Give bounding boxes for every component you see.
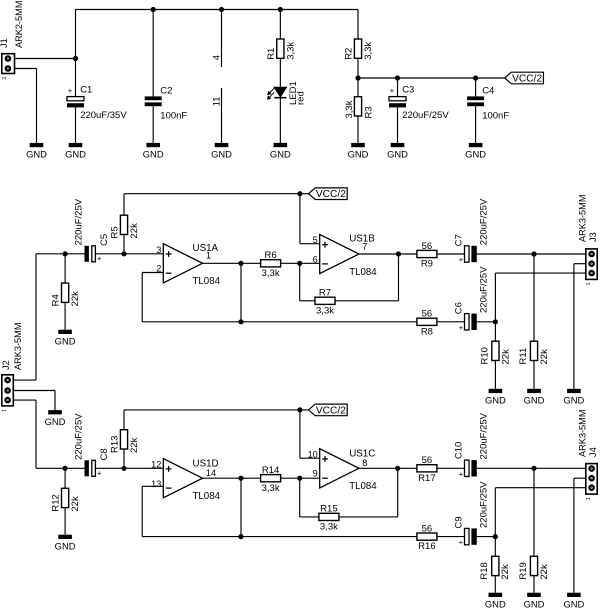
svg-text:R10: R10 bbox=[479, 347, 490, 364]
resistor R11 22k bbox=[518, 341, 550, 364]
svg-text:56: 56 bbox=[422, 455, 433, 466]
wire C8 to US1D bbox=[95, 467, 163, 469]
svg-text:220uF/25V: 220uF/25V bbox=[402, 110, 449, 121]
ground LED1 bbox=[270, 143, 291, 160]
wire R6 to US1B pin6 bbox=[281, 262, 320, 264]
svg-text:3,3k: 3,3k bbox=[320, 522, 338, 533]
ground C3 bbox=[387, 143, 408, 160]
svg-text:R11: R11 bbox=[518, 348, 529, 365]
svg-text:1: 1 bbox=[2, 409, 8, 412]
ground J4 pin2 bbox=[563, 593, 584, 609]
svg-text:56: 56 bbox=[422, 523, 433, 534]
resistor R18 22k bbox=[479, 556, 511, 579]
wire top supply rail bbox=[76, 9, 359, 11]
svg-text:220uF/25V: 220uF/25V bbox=[478, 266, 489, 313]
svg-text:C5: C5 bbox=[99, 234, 110, 246]
op-amp US1C bbox=[308, 449, 378, 493]
ground R3 bbox=[348, 143, 369, 160]
op-amp US1A bbox=[156, 243, 220, 287]
wire J1 pin2 to ground bbox=[15, 69, 37, 143]
wire R9 to C7 bbox=[437, 253, 465, 255]
wire R4 to ground bbox=[64, 302, 66, 329]
svg-text:22k: 22k bbox=[539, 564, 550, 580]
wire US1C output bbox=[359, 467, 417, 469]
svg-text:R14: R14 bbox=[262, 465, 279, 476]
svg-text:R19: R19 bbox=[518, 562, 529, 579]
svg-text:ARK2-5MM: ARK2-5MM bbox=[14, 1, 24, 48]
svg-text:R1: R1 bbox=[266, 48, 277, 60]
wire node VCC/2 horizontal bbox=[358, 77, 505, 79]
ground C4 bbox=[465, 143, 486, 160]
svg-text:GND: GND bbox=[348, 149, 369, 160]
svg-text:220uF/25V: 220uF/25V bbox=[478, 481, 489, 528]
wire US1D output bbox=[203, 477, 261, 479]
svg-text:9: 9 bbox=[313, 469, 318, 479]
ground R10 bbox=[485, 389, 506, 406]
wire to R11 bbox=[533, 254, 535, 341]
connector J4 ARK3-5MM bbox=[577, 410, 598, 501]
capacitor C5 220uF/25V bbox=[73, 198, 110, 263]
junction US1C inverting bbox=[297, 476, 302, 481]
svg-text:R18: R18 bbox=[479, 562, 490, 579]
svg-text:J4: J4 bbox=[588, 447, 598, 457]
junction bias B bbox=[121, 466, 126, 471]
wire C6 to node bbox=[477, 321, 496, 323]
svg-text:22k: 22k bbox=[539, 349, 550, 365]
resistor R12 22k bbox=[51, 488, 82, 511]
wire R19 to ground bbox=[533, 576, 535, 593]
svg-text:4: 4 bbox=[212, 55, 222, 60]
svg-text:R13: R13 bbox=[109, 436, 120, 453]
ground pin11 bbox=[211, 143, 232, 160]
wire node to R10 bbox=[494, 322, 496, 341]
wire VCC/2 to US1C pin10 bbox=[300, 410, 320, 458]
op-amp US1B bbox=[313, 233, 378, 278]
svg-text:220uF/25V: 220uF/25V bbox=[478, 412, 489, 459]
resistor R16 56 bbox=[417, 523, 437, 552]
capacitor C7 220uF/25V bbox=[453, 198, 489, 264]
junction C7 line bbox=[531, 251, 536, 256]
resistor R7 3,3k bbox=[315, 288, 335, 317]
wire R5 to VCC/2 line bbox=[124, 194, 300, 216]
svg-text:US1A: US1A bbox=[193, 243, 219, 254]
junction feedback bottom B bbox=[238, 534, 243, 539]
wire J2 pin1 to input A bbox=[13, 254, 84, 380]
svg-text:100nF: 100nF bbox=[482, 110, 509, 121]
svg-text:1: 1 bbox=[2, 76, 8, 79]
svg-text:56: 56 bbox=[422, 241, 433, 252]
svg-text:R2: R2 bbox=[343, 48, 354, 60]
svg-text:10: 10 bbox=[308, 449, 318, 459]
wire bias A to R5 bbox=[123, 235, 125, 254]
junction US1C out bbox=[395, 466, 400, 471]
junction C3 bbox=[395, 75, 400, 80]
svg-text:ARK3-5MM: ARK3-5MM bbox=[577, 195, 587, 242]
svg-text:GND: GND bbox=[211, 149, 232, 160]
wire R1 to LED1 bbox=[279, 58, 281, 87]
wire US1A feedback bbox=[142, 263, 241, 322]
svg-text:11: 11 bbox=[212, 97, 222, 107]
resistor R13 22k bbox=[109, 430, 139, 453]
resistor R15 3,3k bbox=[319, 504, 339, 533]
svg-text:6: 6 bbox=[313, 254, 318, 264]
svg-text:3,3k: 3,3k bbox=[262, 483, 280, 494]
svg-text:+: + bbox=[459, 538, 464, 547]
wire rail to R1 bbox=[279, 10, 281, 40]
capacitor C4 100nF bbox=[467, 85, 509, 121]
junction C10 line bbox=[531, 466, 536, 471]
svg-text:3,3k: 3,3k bbox=[316, 305, 334, 316]
connector J3 ARK3-5MM bbox=[577, 195, 598, 286]
svg-text:100nF: 100nF bbox=[160, 110, 187, 121]
wire node to R3 bbox=[357, 78, 359, 97]
svg-text:+: + bbox=[68, 86, 73, 95]
svg-text:R12: R12 bbox=[51, 494, 62, 511]
svg-text:J3: J3 bbox=[588, 232, 598, 242]
resistor R4 22k bbox=[51, 283, 82, 306]
svg-text:GND: GND bbox=[55, 541, 76, 552]
svg-text:C8: C8 bbox=[99, 448, 110, 460]
junction C6 out bbox=[493, 319, 498, 324]
svg-text:R16: R16 bbox=[418, 541, 435, 552]
capacitor C10 220uF/25V bbox=[453, 412, 489, 478]
wire junction to flag bbox=[300, 193, 309, 195]
wire node to J3 pin3 bbox=[495, 273, 585, 322]
svg-text:C1: C1 bbox=[80, 85, 92, 96]
wire R3 to ground bbox=[357, 116, 359, 143]
junction US1A out bbox=[238, 261, 243, 266]
wire node to C4 bbox=[475, 78, 477, 96]
svg-text:220uF/35V: 220uF/35V bbox=[80, 110, 127, 121]
svg-text:R5: R5 bbox=[109, 226, 120, 238]
svg-text:220uF/25V: 220uF/25V bbox=[73, 413, 84, 460]
wire node VCC vertical bbox=[75, 10, 77, 97]
junction input B R12 bbox=[63, 466, 68, 471]
wire C4 to ground bbox=[475, 106, 477, 143]
svg-text:22k: 22k bbox=[70, 291, 81, 307]
capacitor C8 220uF/25V bbox=[73, 413, 110, 478]
wire VCC/2 to US1B pin5 bbox=[300, 194, 320, 244]
ground J1 pin2 bbox=[26, 143, 47, 160]
svg-text:220uF/25V: 220uF/25V bbox=[478, 198, 489, 245]
resistor R3 3,3k bbox=[344, 97, 375, 119]
svg-text:R6: R6 bbox=[265, 250, 277, 261]
svg-text:J1: J1 bbox=[0, 38, 9, 48]
ground J3 pin2 bbox=[563, 389, 584, 406]
wire C5 to US1A bbox=[95, 253, 163, 255]
svg-text:GND: GND bbox=[387, 149, 408, 160]
svg-text:22k: 22k bbox=[129, 437, 140, 453]
wire node to C3 bbox=[397, 78, 399, 97]
svg-text:TL084: TL084 bbox=[193, 491, 221, 502]
svg-text:56: 56 bbox=[422, 309, 433, 320]
svg-text:R15: R15 bbox=[320, 504, 337, 515]
wire J2 pin3 to input B bbox=[13, 400, 84, 468]
svg-text:VCC/2: VCC/2 bbox=[316, 189, 346, 200]
wire to R7 bbox=[300, 263, 315, 301]
wire R16 to C9 bbox=[437, 536, 465, 538]
wire R7 to US1B output bbox=[335, 254, 399, 301]
svg-text:J2: J2 bbox=[1, 360, 11, 370]
svg-text:3,3k: 3,3k bbox=[344, 100, 355, 118]
svg-text:C9: C9 bbox=[453, 516, 464, 528]
junction VCC/2 low bbox=[297, 407, 302, 412]
flag VCC/2 middle bbox=[309, 188, 348, 200]
svg-text:12: 12 bbox=[151, 459, 161, 469]
resistor R1 3,3k bbox=[266, 39, 297, 60]
wire R17 to C10 bbox=[437, 467, 465, 469]
svg-text:13: 13 bbox=[151, 479, 161, 489]
wire R13 to VCC/2 line bbox=[124, 410, 300, 430]
resistor R10 22k bbox=[479, 341, 511, 364]
svg-text:R7: R7 bbox=[319, 288, 331, 299]
svg-text:C10: C10 bbox=[453, 442, 464, 459]
wire R12 to ground bbox=[64, 508, 66, 535]
svg-text:1: 1 bbox=[586, 282, 592, 285]
svg-text:GND: GND bbox=[465, 149, 486, 160]
wire US1A output bbox=[203, 262, 261, 264]
resistor R17 56 bbox=[417, 455, 437, 484]
junction rail pin4 bbox=[219, 7, 224, 12]
wire to R19 bbox=[533, 468, 535, 556]
flag VCC/2 top bbox=[505, 72, 544, 84]
junction US1B inverting bbox=[297, 261, 302, 266]
wire bias B to R13 bbox=[123, 449, 125, 468]
svg-text:GND: GND bbox=[270, 149, 291, 160]
svg-text:GND: GND bbox=[45, 416, 66, 427]
svg-text:+: + bbox=[459, 469, 464, 478]
svg-text:C3: C3 bbox=[402, 85, 414, 96]
ground C2 bbox=[143, 143, 164, 160]
resistor R14 3,3k bbox=[261, 465, 281, 494]
wire R14 to US1C pin9 bbox=[281, 477, 320, 479]
svg-text:GND: GND bbox=[65, 149, 86, 160]
connector J2 ARK3-5MM bbox=[1, 323, 23, 412]
op-amp US1D bbox=[151, 459, 220, 503]
wire node to R18 bbox=[494, 537, 496, 557]
wire C3 to ground bbox=[397, 107, 399, 142]
svg-text:R8: R8 bbox=[421, 326, 433, 337]
svg-text:22k: 22k bbox=[500, 564, 511, 580]
wire LED1 to ground bbox=[279, 98, 281, 143]
svg-text:C6: C6 bbox=[453, 302, 464, 314]
svg-text:R17: R17 bbox=[418, 473, 435, 484]
svg-text:TL084: TL084 bbox=[349, 267, 377, 278]
ground R19 bbox=[524, 593, 545, 609]
wire C10 to J4 pin1 bbox=[477, 467, 586, 469]
junction rail R1 bbox=[278, 7, 283, 12]
capacitor C3 220uF/25V bbox=[389, 85, 449, 122]
svg-text:220uF/25V: 220uF/25V bbox=[73, 198, 84, 245]
svg-text:VCC/2: VCC/2 bbox=[512, 73, 542, 84]
wire input A to R4 bbox=[64, 254, 66, 283]
wire C2 to ground bbox=[152, 106, 154, 143]
ground J2 pin2 bbox=[45, 410, 66, 427]
wire J1 pin1 to node VCC bbox=[15, 58, 76, 60]
wire J3 pin2 to ground bbox=[574, 264, 586, 389]
svg-text:+: + bbox=[390, 86, 395, 95]
junction feedback bottom bbox=[238, 319, 243, 324]
junction US1D out bbox=[238, 476, 243, 481]
svg-text:GND: GND bbox=[524, 395, 545, 406]
svg-text:GND: GND bbox=[485, 599, 506, 609]
svg-text:+: + bbox=[97, 469, 102, 478]
svg-text:R3: R3 bbox=[363, 106, 374, 118]
svg-text:3,3k: 3,3k bbox=[285, 42, 296, 60]
svg-text:GND: GND bbox=[143, 149, 164, 160]
junction node VCC bbox=[73, 56, 78, 61]
ground R11 bbox=[524, 389, 545, 406]
svg-text:3: 3 bbox=[156, 245, 161, 255]
svg-text:22k: 22k bbox=[500, 349, 511, 365]
junction bias A bbox=[121, 251, 126, 256]
resistor R2 3,3k bbox=[343, 39, 374, 60]
svg-text:GND: GND bbox=[524, 599, 545, 609]
svg-text:ARK3-5MM: ARK3-5MM bbox=[577, 410, 587, 457]
wire input B to R12 bbox=[64, 468, 66, 488]
wire R18 to ground bbox=[494, 576, 496, 593]
wire J2 pin2 to ground bbox=[13, 391, 55, 411]
LED1 red bbox=[267, 81, 307, 105]
flag VCC/2 lower bbox=[309, 404, 348, 416]
svg-text:ARK3-5MM: ARK3-5MM bbox=[13, 323, 23, 370]
wire R10 to ground bbox=[494, 361, 496, 389]
svg-text:C2: C2 bbox=[160, 85, 172, 96]
svg-text:5: 5 bbox=[313, 235, 318, 245]
capacitor C6 220uF/25V bbox=[453, 266, 489, 332]
svg-text:+: + bbox=[97, 254, 102, 263]
wire node to J4 pin3 bbox=[495, 488, 586, 537]
svg-text:VCC/2: VCC/2 bbox=[316, 405, 346, 416]
pin 11 US1 power stub bbox=[212, 88, 222, 143]
connector J1 ARK2-5MM bbox=[0, 1, 24, 80]
svg-text:C4: C4 bbox=[482, 85, 494, 96]
svg-text:1: 1 bbox=[586, 497, 592, 500]
capacitor C2 100nF bbox=[145, 85, 188, 121]
svg-text:22k: 22k bbox=[70, 496, 81, 512]
svg-text:+: + bbox=[459, 255, 464, 264]
resistor R6 3,3k bbox=[261, 250, 281, 279]
svg-text:GND: GND bbox=[563, 395, 584, 406]
wire R11 to ground bbox=[533, 361, 535, 389]
svg-text:3,3k: 3,3k bbox=[262, 268, 280, 279]
wire J4 pin2 to ground bbox=[574, 478, 586, 593]
svg-text:22k: 22k bbox=[129, 223, 140, 239]
wire C1 to ground bbox=[75, 107, 77, 142]
pin 4 US1 power stub bbox=[212, 10, 222, 68]
resistor R5 22k bbox=[109, 215, 139, 238]
wire R2 to node VCC/2 bbox=[357, 58, 359, 78]
junction rail C2 bbox=[151, 7, 156, 12]
svg-text:GND: GND bbox=[26, 149, 47, 160]
ground R12 bbox=[55, 535, 76, 552]
svg-text:GND: GND bbox=[485, 395, 506, 406]
wire R15 to US1C output bbox=[339, 468, 398, 517]
wire US1B output bbox=[359, 253, 417, 255]
junction US1B out bbox=[396, 251, 401, 256]
svg-text:GND: GND bbox=[563, 599, 584, 609]
wire rail corner to R2 bbox=[357, 10, 359, 40]
junction C9 out bbox=[493, 534, 498, 539]
wire feedback line to R16 bbox=[241, 536, 417, 538]
wire R8 to C6 bbox=[437, 321, 465, 323]
wire rail to C2 bbox=[152, 10, 154, 97]
junction C4 bbox=[473, 75, 478, 80]
junction input A R4 bbox=[63, 251, 68, 256]
junction node VCC/2 top bbox=[355, 75, 360, 80]
resistor R8 56 bbox=[417, 309, 437, 338]
resistor R19 22k bbox=[518, 556, 550, 579]
wire feedback line to R8 bbox=[241, 321, 417, 323]
ground R18 bbox=[485, 593, 506, 609]
svg-text:US1C: US1C bbox=[349, 449, 375, 460]
svg-text:US1B: US1B bbox=[349, 233, 375, 244]
svg-text:US1D: US1D bbox=[193, 459, 219, 470]
svg-text:C7: C7 bbox=[453, 234, 464, 246]
svg-text:R4: R4 bbox=[51, 294, 62, 306]
wire C7 to J3 pin1 bbox=[477, 253, 586, 255]
wire junction to flag low bbox=[300, 409, 309, 411]
svg-text:R9: R9 bbox=[421, 259, 433, 270]
capacitor C1 220uF/35V bbox=[67, 85, 127, 122]
ground C1 bbox=[65, 143, 86, 160]
wire C9 to node bbox=[477, 536, 496, 538]
svg-text:+: + bbox=[459, 323, 464, 332]
wire US1D feedback bbox=[142, 478, 241, 536]
wire to R15 bbox=[300, 478, 319, 517]
svg-text:3,3k: 3,3k bbox=[363, 42, 374, 60]
svg-text:TL084: TL084 bbox=[349, 481, 377, 492]
svg-text:GND: GND bbox=[55, 336, 76, 347]
capacitor C9 220uF/25V bbox=[453, 481, 489, 547]
svg-text:red: red bbox=[296, 91, 307, 105]
svg-text:TL084: TL084 bbox=[193, 276, 221, 287]
ground R4 bbox=[55, 330, 76, 347]
resistor R9 56 bbox=[417, 241, 437, 270]
junction VCC/2 mid bbox=[297, 191, 302, 196]
